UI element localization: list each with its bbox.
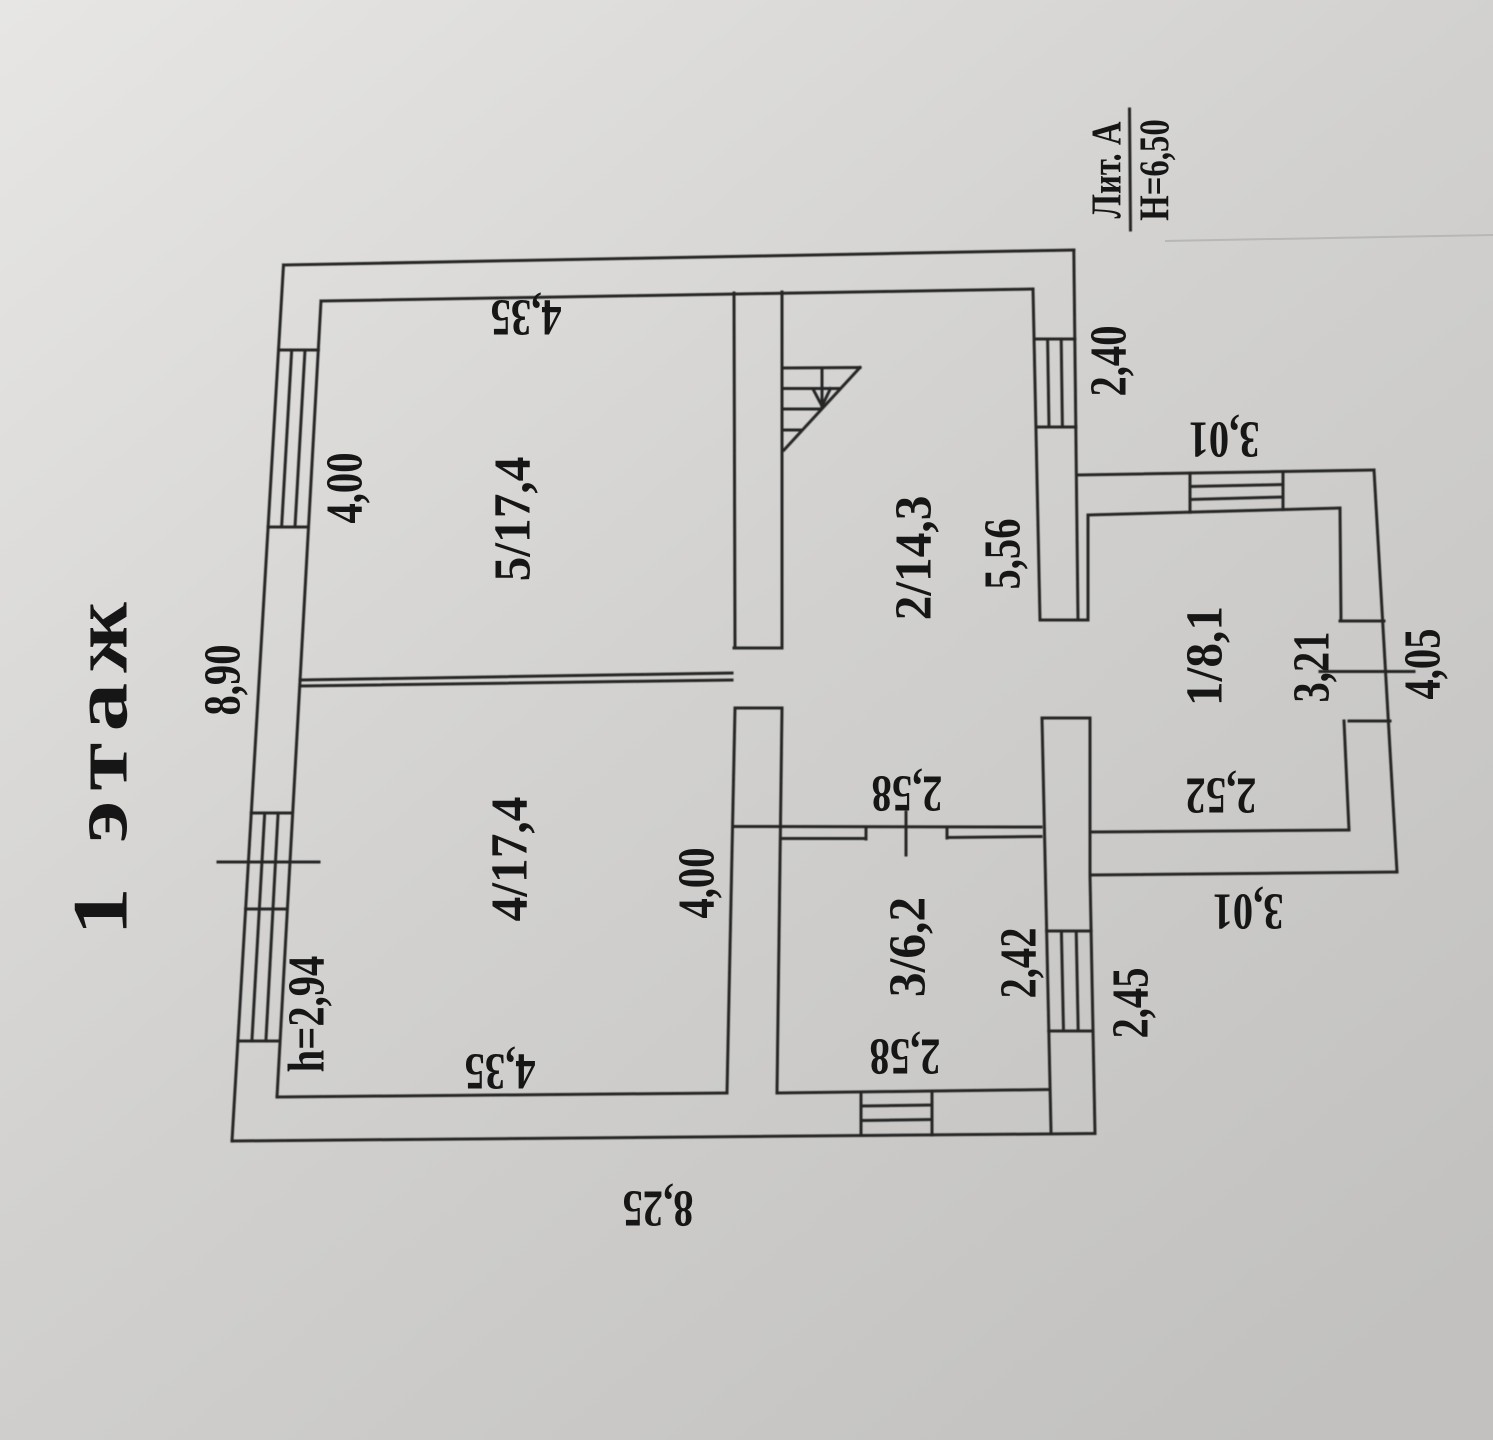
svg-text:8,25: 8,25 bbox=[623, 1179, 694, 1237]
svg-text:3,01: 3,01 bbox=[1213, 882, 1284, 940]
svg-text:4,00: 4,00 bbox=[316, 453, 374, 524]
svg-text:4,35: 4,35 bbox=[491, 288, 562, 346]
svg-text:4,05: 4,05 bbox=[1394, 629, 1452, 700]
svg-text:Н=6,50: Н=6,50 bbox=[1131, 119, 1178, 220]
svg-text:2,42: 2,42 bbox=[990, 928, 1048, 999]
svg-text:2/14,3: 2/14,3 bbox=[885, 496, 942, 621]
svg-text:3,01: 3,01 bbox=[1189, 410, 1260, 468]
svg-text:1/8,1: 1/8,1 bbox=[1176, 606, 1233, 706]
svg-text:5/17,4: 5/17,4 bbox=[484, 457, 541, 582]
svg-text:5,56: 5,56 bbox=[974, 519, 1032, 590]
svg-text:8,90: 8,90 bbox=[194, 645, 252, 716]
svg-text:3/6,2: 3/6,2 bbox=[879, 897, 936, 997]
svg-text:4/17,4: 4/17,4 bbox=[481, 797, 538, 922]
svg-text:h=2,94: h=2,94 bbox=[278, 956, 336, 1073]
svg-text:4,00: 4,00 bbox=[668, 848, 726, 919]
svg-text:1 этаж: 1 этаж bbox=[58, 592, 145, 936]
svg-text:2,45: 2,45 bbox=[1102, 968, 1160, 1039]
svg-text:2,58: 2,58 bbox=[870, 1027, 941, 1085]
svg-text:2,40: 2,40 bbox=[1080, 326, 1138, 397]
svg-text:2,58: 2,58 bbox=[872, 764, 943, 822]
svg-text:3,21: 3,21 bbox=[1283, 632, 1341, 703]
svg-text:Лит. А: Лит. А bbox=[1083, 122, 1130, 219]
svg-text:2,52: 2,52 bbox=[1186, 766, 1257, 824]
svg-text:4,35: 4,35 bbox=[465, 1042, 536, 1100]
